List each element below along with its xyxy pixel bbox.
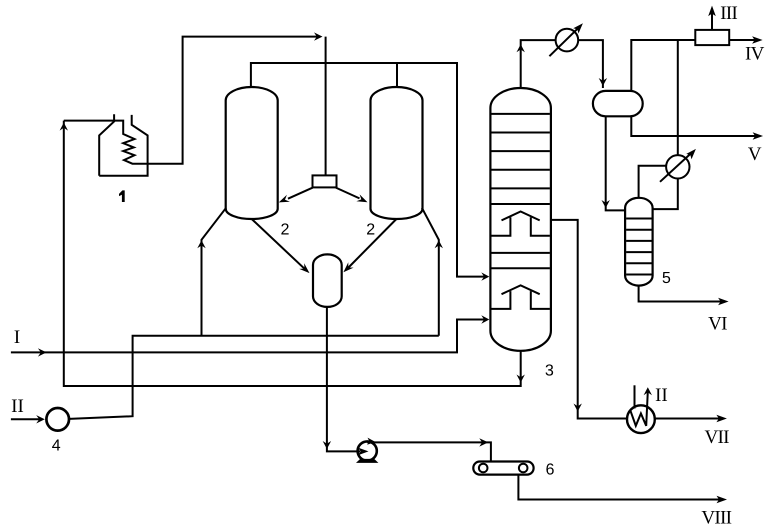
- condenser (heat exchanger) on overhead: [549, 27, 579, 56]
- pump 4: [46, 408, 69, 431]
- column 3 vapor distributor (lower chevron): [491, 285, 550, 309]
- arrow: V: [753, 132, 764, 140]
- arrow: right into center downcomer: [314, 32, 323, 40]
- wire: drum vapor to top separator block: [631, 40, 695, 91]
- fired reboiler (circle with burner): [627, 385, 655, 433]
- wire: reactor 2 bottoms to interstage vessel: [347, 219, 397, 270]
- exchanger at column 5: [660, 152, 692, 182]
- label 2 (right): [367, 223, 374, 234]
- arrow: down above pump corner: [323, 441, 331, 449]
- reactor 2 (right vessel): [371, 87, 423, 219]
- arrow: II up from reboiler: [644, 387, 652, 395]
- wire: stream I feed to column 3 lower inlet: [11, 320, 485, 353]
- arrow: down toward column 5: [602, 200, 610, 208]
- label II: [12, 400, 23, 412]
- arrow: upper feed into column 3: [481, 272, 489, 280]
- arrow: VII: [716, 415, 727, 423]
- reflux drum: [593, 91, 643, 116]
- wire: pump 4 discharge manifold to reactor bottoms: [69, 336, 439, 419]
- column 3 trays (upper): [491, 114, 550, 204]
- pump (center, with base): [356, 441, 378, 463]
- arrow: exchanger diagonal tip: [686, 149, 696, 159]
- arrow: II into pump 4: [36, 415, 45, 423]
- arrow: III: [708, 6, 716, 17]
- label I: [15, 331, 20, 343]
- label 2 (left): [281, 223, 288, 234]
- arrow: condenser diagonal tip: [573, 23, 583, 33]
- wire: bottom side feed to reactor 2: [422, 208, 439, 336]
- arrow: up into reactor 2: [435, 240, 443, 248]
- label VIII: [702, 511, 732, 524]
- label 6: [546, 463, 553, 474]
- label VI: [708, 317, 726, 330]
- wire: column 5 bottoms to VI: [639, 286, 725, 302]
- wire: center downcomer to distributor box: [325, 37, 327, 176]
- wire: distributor to reactor 1 wall: [288, 188, 313, 199]
- arrow: down above reboiler corner: [574, 404, 582, 412]
- wire: drum bottoms to V: [631, 116, 759, 136]
- label 5: [663, 272, 671, 283]
- wire: equipment 6 outlet to VIII: [518, 475, 723, 500]
- reactor 2 (left vessel): [226, 87, 278, 219]
- arrow: lower feed into column 3: [481, 315, 489, 323]
- arrow: up on column 3 overhead: [517, 44, 525, 52]
- arrow: I inlet: [38, 348, 47, 356]
- label 1: [119, 190, 125, 202]
- arrow: into vessel right: [343, 262, 353, 272]
- wire: column 5 overhead to exchanger: [639, 166, 667, 198]
- interstage vessel: [313, 254, 342, 307]
- column 3 vapor distributor (upper chevron): [491, 212, 550, 236]
- wire: interstage vessel bottoms down to pump: [327, 307, 367, 452]
- wire: bottom side feed to reactor 1: [202, 208, 227, 336]
- label V: [748, 148, 761, 161]
- column 5 packing lines: [626, 219, 652, 275]
- arrow: IV: [752, 36, 763, 44]
- wire: furnace feed and coil: [64, 37, 320, 164]
- arrow: right before corner into 6: [479, 438, 488, 446]
- furnace 1 body: [99, 114, 147, 176]
- label 3: [546, 364, 554, 375]
- wire: column 3 side draw to reboiler and VII: [551, 220, 723, 419]
- wire: reactor 1 bottoms to interstage vessel: [252, 219, 305, 269]
- wire: stream II into pump 4: [11, 418, 41, 420]
- arrow: down into drum: [599, 78, 607, 86]
- arrow: into reactor 2: [356, 194, 367, 202]
- arrow: VIII stream: [717, 496, 728, 504]
- arrow: down at column 3 bottoms: [517, 375, 525, 383]
- top separator block (III/IV): [695, 30, 729, 45]
- wire: gas line down through exchanger into column 5: [653, 40, 678, 209]
- column 3 shell: [490, 88, 551, 351]
- wire: column 3 overhead to condenser and drum: [521, 40, 603, 88]
- column 3 trays (middle): [491, 253, 550, 268]
- equipment 6: [473, 462, 533, 475]
- arrow: small rotation arrow at pump top: [367, 438, 376, 445]
- label II at reboiler: [656, 389, 667, 401]
- wire: stream IV right: [729, 39, 759, 41]
- wire: distributor to reactor 2 wall: [336, 188, 360, 199]
- wire: recycle from column 3 bottom to furnace riser: [64, 121, 521, 386]
- arrow: up into furnace feed line: [60, 123, 68, 131]
- column 5 shell: [625, 198, 653, 286]
- wire: stream III up: [711, 10, 713, 30]
- wire: reactor feed header: [251, 63, 485, 277]
- label 4: [52, 439, 60, 450]
- label IV: [746, 47, 764, 60]
- label III: [721, 7, 737, 19]
- label VII: [705, 431, 729, 444]
- wire: drum liquid down to column 5: [606, 116, 625, 210]
- wire: pump discharge to equipment 6: [367, 442, 491, 461]
- arrow: into reactor 1: [279, 195, 290, 203]
- arrow: VI: [718, 298, 729, 306]
- arrow: into pump center: [358, 448, 369, 456]
- distributor box between reactors: [313, 175, 337, 187]
- arrow: up into reactor 1: [197, 240, 205, 248]
- arrow: into vessel left: [299, 263, 309, 273]
